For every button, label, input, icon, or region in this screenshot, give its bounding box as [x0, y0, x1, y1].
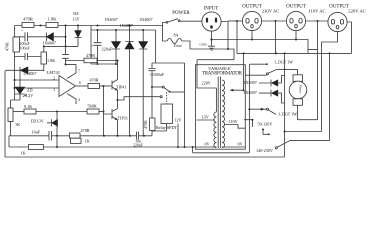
svg-text:110V AC: 110V AC: [308, 9, 325, 14]
svg-text:100uF: 100uF: [20, 46, 31, 51]
svg-text:0V: 0V: [205, 141, 210, 146]
svg-text:1N4007: 1N4007: [243, 80, 257, 85]
svg-text:1K: 1K: [85, 139, 90, 144]
svg-text:L.DGT 1W: L.DGT 1W: [279, 112, 298, 117]
svg-text:1N4007: 1N4007: [43, 41, 57, 46]
svg-text:+: +: [92, 44, 94, 48]
svg-text:470R: 470R: [89, 78, 98, 83]
svg-text:1K: 1K: [15, 122, 20, 127]
svg-text:OUTPUT: OUTPUT: [286, 4, 306, 9]
svg-text:50-130V: 50-130V: [258, 121, 273, 126]
svg-text:OUTPUT: OUTPUT: [329, 4, 349, 9]
svg-text:TRANSFORMATOR: TRANSFORMATOR: [202, 72, 243, 77]
svg-text:POWER: POWER: [172, 11, 190, 16]
svg-text:7: 7: [78, 70, 80, 74]
svg-text:2: 2: [53, 77, 55, 81]
svg-text:9.1K: 9.1K: [24, 104, 32, 109]
svg-text:+3300uF: +3300uF: [150, 72, 165, 77]
svg-text:470K: 470K: [5, 42, 10, 51]
svg-text:13V: 13V: [202, 114, 209, 119]
svg-text:DZ13V: DZ13V: [31, 119, 44, 124]
svg-text:8A: 8A: [173, 33, 178, 38]
svg-text:1N4007: 1N4007: [23, 71, 37, 76]
svg-text:Relay SPDT: Relay SPDT: [156, 125, 177, 130]
svg-text:220uF: 220uF: [102, 47, 113, 52]
svg-text:1.8K: 1.8K: [48, 17, 58, 22]
svg-text:1.8K: 1.8K: [47, 58, 55, 63]
svg-text:3: 3: [53, 88, 55, 92]
svg-text:1N4007: 1N4007: [120, 23, 134, 28]
svg-text:10uF: 10uF: [32, 130, 41, 135]
svg-text:4: 4: [78, 98, 80, 102]
svg-text:Fuse: Fuse: [174, 43, 182, 48]
svg-text:13V: 13V: [72, 17, 79, 22]
svg-text:140-230V: 140-230V: [256, 148, 273, 153]
svg-text:DZ: DZ: [73, 11, 79, 16]
svg-text:TIP31: TIP31: [118, 116, 128, 121]
svg-text:470K: 470K: [143, 120, 148, 129]
svg-text:0V: 0V: [238, 141, 243, 146]
svg-text:L.DGT 1W: L.DGT 1W: [275, 60, 294, 65]
svg-text:OUTPUT: OUTPUT: [242, 4, 262, 9]
svg-text:INPUT: INPUT: [204, 7, 219, 12]
svg-text:1N4007: 1N4007: [104, 17, 118, 22]
svg-text:3.2V: 3.2V: [25, 93, 33, 98]
svg-text:470R: 470R: [81, 128, 90, 133]
svg-text:Motor: Motor: [299, 85, 303, 94]
svg-text:+: +: [21, 29, 23, 33]
svg-text:GND: GND: [200, 43, 208, 47]
svg-text:230V AC: 230V AC: [262, 9, 279, 14]
svg-text:220V: 220V: [202, 81, 211, 86]
svg-text:6: 6: [79, 81, 81, 85]
svg-text:1K: 1K: [20, 151, 25, 156]
svg-text:LM741: LM741: [47, 70, 61, 75]
svg-text:12V: 12V: [175, 118, 182, 123]
svg-text:220V AC: 220V AC: [348, 9, 365, 14]
svg-text:1N4007: 1N4007: [139, 17, 153, 22]
svg-text:470R: 470R: [23, 17, 33, 22]
svg-text:1N4007: 1N4007: [243, 90, 257, 95]
svg-text:470R: 470R: [86, 53, 95, 58]
svg-text:560K: 560K: [88, 104, 97, 109]
svg-text:VARIABLE: VARIABLE: [208, 66, 231, 71]
svg-text:TIP41: TIP41: [116, 85, 126, 90]
svg-text:110V: 110V: [229, 119, 238, 124]
